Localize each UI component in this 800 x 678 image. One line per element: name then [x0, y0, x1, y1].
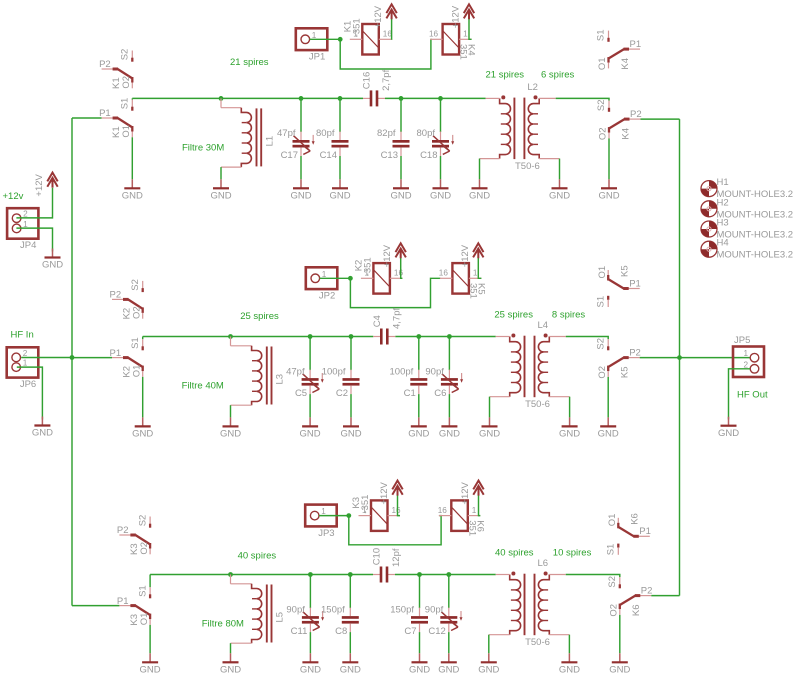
node rail/C12: [446, 572, 451, 577]
wire rail to C13: [400, 98, 402, 132]
wire C5 to ground: [309, 394, 311, 417]
ground K1 O1: [122, 179, 143, 201]
transformer L2 primary winding: [500, 95, 511, 158]
wire rail to C11: [309, 575, 311, 609]
wire K6 P2 to output bus: [651, 595, 679, 597]
wire C18 to ground: [440, 156, 442, 179]
ground C5: [300, 417, 321, 439]
junction JP3/K3: [346, 513, 351, 518]
svg-text:S2: S2: [607, 576, 618, 588]
wire L5 to ground: [230, 643, 232, 653]
svg-text:GND: GND: [42, 260, 63, 271]
svg-text:100pf: 100pf: [322, 366, 346, 377]
svg-text:12pf: 12pf: [391, 548, 402, 567]
wire K6 O2 to ground: [619, 615, 621, 653]
row 1 rail right segment: [385, 97, 486, 99]
wire JP3 to K3 coil: [319, 515, 349, 517]
svg-text:K5: K5: [620, 366, 631, 378]
wire K5 P2 to output bus: [640, 357, 680, 359]
capacitor C4 4,7pf (series): [372, 308, 403, 345]
+12V supply K1: [373, 4, 397, 28]
svg-text:90pf: 90pf: [286, 604, 305, 615]
node rail/L5: [228, 572, 233, 577]
svg-text:S1: S1: [137, 585, 148, 597]
svg-text:JP1: JP1: [309, 52, 325, 63]
ground L4 secondary: [559, 417, 580, 439]
svg-text:K6: K6: [630, 513, 641, 525]
svg-text:H3: H3: [717, 218, 729, 229]
svg-text:Filtre 30M: Filtre 30M: [182, 142, 224, 153]
svg-text:S1: S1: [595, 296, 606, 308]
node rail/L1: [219, 96, 224, 101]
svg-text:S1: S1: [596, 29, 607, 41]
svg-text:GND: GND: [390, 191, 411, 202]
wire K2 O1 to ground: [142, 377, 144, 418]
svg-text:2,7pf: 2,7pf: [381, 69, 392, 90]
svg-text:80pf: 80pf: [417, 128, 436, 139]
svg-text:C8: C8: [335, 626, 347, 637]
wire K1 S1 to rail: [131, 98, 133, 99]
inductor L5: [231, 575, 286, 644]
svg-text:+12V: +12V: [451, 5, 462, 28]
relay contact K1 contact (P1/S1/O1): [99, 98, 132, 138]
svg-text:2: 2: [23, 349, 28, 358]
wire K3 S1 to rail: [149, 575, 151, 588]
svg-text:K6: K6: [631, 604, 642, 616]
svg-text:MOUNT-HOLE3.2: MOUNT-HOLE3.2: [717, 250, 794, 261]
wire K1 O1 to ground: [131, 137, 133, 179]
svg-text:GND: GND: [409, 665, 430, 676]
svg-text:1: 1: [321, 507, 326, 516]
svg-text:P1: P1: [110, 348, 122, 359]
wire L6 secondary to K6 S2: [566, 575, 620, 578]
svg-text:L4: L4: [538, 320, 549, 331]
svg-text:JP5: JP5: [734, 335, 750, 346]
svg-text:O2: O2: [121, 76, 132, 89]
svg-text:K4: K4: [620, 58, 631, 70]
svg-text:1: 1: [312, 31, 317, 40]
svg-text:-351: -351: [360, 495, 371, 514]
wire rail to C14: [339, 98, 341, 132]
wire output bus to JP5 pin1: [680, 357, 751, 359]
row 3 rail left segment: [150, 574, 373, 576]
relay contact K3 spare contact (P2/S2/O2): [117, 515, 150, 555]
svg-text:GND: GND: [210, 191, 231, 202]
svg-text:C5: C5: [295, 388, 307, 399]
svg-text:O1: O1: [597, 266, 608, 279]
wire C1 to ground: [418, 394, 420, 417]
svg-text:C17: C17: [281, 150, 298, 161]
ground JP4: [42, 249, 63, 271]
wire K4 O2 to ground: [608, 138, 610, 179]
svg-text:T50-6: T50-6: [515, 161, 540, 172]
wire JP6 pin2 to input bus: [21, 357, 72, 359]
svg-text:O2: O2: [597, 366, 608, 379]
L6 secondary pin: [549, 574, 566, 576]
relay contact K6 spare contact (P1/S1/O1): [606, 513, 651, 555]
wire JP2 to K5 coil: [350, 278, 440, 307]
input bus vertical: [71, 118, 73, 606]
connector JP6: [7, 347, 39, 390]
mount hole H1: [701, 177, 793, 200]
svg-text:P1: P1: [629, 278, 641, 289]
svg-text:GND: GND: [469, 191, 490, 202]
L4 secondary pin: [549, 336, 566, 338]
relay coil K1 -351: [342, 18, 392, 54]
svg-text:O2: O2: [598, 127, 609, 140]
wire L4 secondary to ground: [549, 396, 569, 398]
svg-text:C16: C16: [362, 72, 373, 89]
L4 primary pin: [496, 336, 510, 338]
svg-text:C12: C12: [428, 626, 445, 637]
svg-text:GND: GND: [598, 191, 619, 202]
wire K4 P2 to output bus: [641, 118, 680, 120]
svg-text:GND: GND: [290, 191, 311, 202]
svg-text:GND: GND: [439, 429, 460, 440]
svg-text:C7: C7: [404, 626, 416, 637]
svg-text:O1: O1: [607, 514, 618, 527]
wire C11 to ground: [309, 632, 311, 653]
L2 primary pin: [486, 97, 500, 99]
wire rail to C2: [350, 337, 352, 371]
svg-text:K6: K6: [474, 520, 485, 532]
mount hole H3: [701, 218, 793, 241]
svg-text:P2: P2: [641, 585, 653, 596]
svg-text:1: 1: [472, 506, 477, 515]
capacitor C11 90pf: [286, 604, 324, 637]
wire K6 coil to +12V: [479, 495, 481, 515]
wire rail to C12: [448, 575, 450, 609]
wire K3 O1 to ground: [149, 625, 151, 653]
wire L4 primary to ground: [490, 396, 510, 398]
wire L2 secondary to ground: [539, 158, 559, 160]
svg-text:C6: C6: [434, 388, 446, 399]
svg-text:GND: GND: [559, 665, 580, 676]
relay coil K4 351: [429, 24, 477, 60]
node rail/C17: [299, 96, 304, 101]
svg-text:P2: P2: [630, 109, 642, 120]
node rail/L3: [228, 334, 233, 339]
svg-text:GND: GND: [329, 191, 350, 202]
svg-text:2: 2: [743, 360, 748, 369]
transformer L4 primary winding: [510, 334, 521, 397]
ground L2 primary: [469, 179, 490, 201]
transformer L6 secondary winding: [538, 572, 549, 635]
wire K1 coil to +12V: [390, 19, 392, 39]
svg-text:GND: GND: [220, 429, 241, 440]
svg-text:GND: GND: [300, 665, 321, 676]
svg-text:S2: S2: [596, 99, 607, 111]
ground L2 secondary: [549, 179, 570, 201]
wire K5 O2 to ground: [607, 377, 609, 418]
relay coil K3 -351: [351, 495, 401, 531]
+12V supply JP4: [34, 173, 58, 197]
connector JP1: [296, 28, 328, 62]
svg-text:P1: P1: [639, 526, 651, 537]
svg-text:25 spires: 25 spires: [240, 311, 279, 322]
ground C7: [409, 653, 430, 675]
svg-text:GND: GND: [438, 665, 459, 676]
node rail/C8: [348, 572, 353, 577]
ground K5 O2: [598, 417, 619, 439]
relay coil K5 351: [439, 263, 487, 299]
svg-text:C18: C18: [420, 150, 437, 161]
svg-text:HF Out: HF Out: [737, 390, 768, 401]
L6 primary pin: [496, 574, 510, 576]
svg-text:L2: L2: [527, 82, 538, 93]
ground K6 O2: [609, 653, 630, 675]
svg-text:S1: S1: [120, 98, 131, 110]
node rail/C18: [438, 96, 443, 101]
svg-text:GND: GND: [300, 429, 321, 440]
transformer L2 core: [513, 98, 515, 160]
wire C12 to ground: [448, 632, 450, 653]
svg-text:O1: O1: [597, 57, 608, 70]
capacitor C13 82pf: [377, 128, 410, 161]
wire C7 to ground: [419, 632, 421, 653]
connector JP4: [7, 208, 38, 251]
svg-text:JP6: JP6: [20, 379, 36, 390]
svg-text:+12V: +12V: [382, 244, 393, 267]
wire rail to C8: [349, 575, 351, 609]
wire L1 to ground: [220, 167, 222, 179]
capacitor C1 100pf: [390, 366, 428, 399]
svg-text:P1: P1: [117, 596, 129, 607]
svg-text:P1: P1: [99, 108, 111, 119]
svg-text:L5: L5: [275, 612, 286, 623]
ground C13: [390, 179, 411, 201]
junction output bus / HF Out: [677, 355, 682, 360]
svg-text:C10: C10: [372, 548, 383, 565]
row 2 rail right segment: [395, 336, 495, 338]
svg-text:K5: K5: [620, 265, 631, 277]
capacitor C5 47pf: [286, 366, 324, 399]
wire rail to C6: [448, 337, 450, 371]
wire C8 to ground: [349, 632, 351, 653]
wire JP1 to K1 coil: [310, 38, 341, 40]
svg-text:150pf: 150pf: [390, 604, 414, 615]
svg-text:6 spires: 6 spires: [541, 70, 575, 81]
svg-text:Filtre 80M: Filtre 80M: [202, 619, 244, 630]
svg-text:25 spires: 25 spires: [494, 309, 533, 320]
relay contact K2 spare contact (P2/S2/O2): [110, 279, 143, 319]
L2 secondary pin: [539, 97, 556, 99]
relay contact K6 contact (P2/S2/O2): [607, 576, 652, 617]
transformer L4 secondary winding: [538, 334, 549, 397]
wire input bus to K3 P1: [72, 605, 119, 607]
connector JP3: [305, 505, 337, 539]
svg-text:S2: S2: [130, 279, 141, 291]
capacitor C7 150pf: [390, 604, 428, 637]
wire K2 coil to +12V: [401, 258, 403, 278]
svg-text:JP2: JP2: [319, 291, 335, 302]
node rail/C1: [416, 334, 421, 339]
svg-text:HF In: HF In: [11, 330, 34, 341]
svg-text:16: 16: [392, 506, 402, 515]
relay contact K4 contact (P2/S2/O2): [596, 99, 641, 140]
svg-text:1: 1: [473, 269, 478, 278]
svg-text:T50-6: T50-6: [525, 399, 550, 410]
svg-text:GND: GND: [122, 191, 143, 202]
wire K5 coil to +12V: [478, 258, 481, 278]
svg-text:80pf: 80pf: [316, 128, 335, 139]
svg-text:H4: H4: [717, 238, 729, 249]
+12V supply K4: [451, 4, 475, 28]
+12V supply K5: [460, 243, 484, 267]
svg-text:16: 16: [439, 269, 449, 278]
svg-text:GND: GND: [430, 191, 451, 202]
ground C12: [438, 653, 459, 675]
node rail/C6: [447, 334, 452, 339]
svg-text:GND: GND: [132, 429, 153, 440]
svg-text:21 spires: 21 spires: [486, 70, 525, 81]
connector JP5: [733, 335, 764, 377]
svg-text:O2: O2: [131, 306, 142, 319]
capacitor C2 100pf: [322, 366, 360, 399]
svg-text:L3: L3: [275, 374, 286, 385]
+12V supply K3: [379, 481, 403, 505]
ground L5: [220, 653, 241, 675]
svg-text:GND: GND: [479, 429, 500, 440]
+12V supply K2: [382, 243, 406, 267]
svg-text:C11: C11: [291, 626, 308, 637]
svg-text:T50-6: T50-6: [525, 637, 550, 648]
svg-text:C1: C1: [404, 388, 416, 399]
wire rail to C1: [418, 337, 420, 371]
wire K2 S1 to rail: [142, 337, 144, 340]
svg-text:10 spires: 10 spires: [553, 547, 592, 558]
row 2 rail left segment: [143, 336, 374, 338]
svg-text:O1: O1: [131, 365, 142, 378]
svg-text:O1: O1: [121, 125, 132, 138]
wire L2 secondary to K4 S2: [556, 98, 609, 100]
wire L3 to ground: [230, 405, 232, 417]
wire C6 to ground: [448, 394, 450, 417]
transformer L2 secondary winding: [528, 95, 539, 158]
svg-text:GND: GND: [140, 665, 161, 676]
svg-text:-351: -351: [362, 257, 373, 276]
svg-text:S1: S1: [606, 544, 617, 556]
relay contact K1 spare contact (P2/S2/O2): [99, 49, 132, 89]
svg-text:GND: GND: [609, 665, 630, 676]
ground JP5: [718, 417, 739, 439]
svg-text:4,7pf: 4,7pf: [391, 308, 402, 329]
inductor L1: [221, 98, 275, 167]
wire rail to C5: [309, 337, 311, 371]
svg-text:16: 16: [429, 30, 439, 39]
svg-text:16: 16: [438, 506, 448, 515]
capacitor C12 90pf: [425, 604, 463, 637]
relay contact K4 spare contact (P1/S1/O1): [596, 29, 641, 70]
svg-text:+12v: +12v: [3, 191, 24, 202]
svg-text:+12V: +12V: [34, 173, 45, 196]
svg-text:JP3: JP3: [318, 528, 334, 539]
mount hole H2: [701, 197, 793, 220]
svg-text:C4: C4: [372, 315, 383, 327]
ground K3 O1: [140, 653, 161, 675]
capacitor C16 2,7pf (series): [362, 69, 393, 106]
svg-text:GND: GND: [408, 429, 429, 440]
wire JP5 pin2 to ground: [729, 369, 751, 420]
ground C14: [329, 179, 350, 201]
ground C8: [340, 653, 361, 675]
ground C11: [300, 653, 321, 675]
svg-text:O2: O2: [609, 604, 620, 617]
svg-text:O1: O1: [139, 613, 150, 626]
svg-text:+12V: +12V: [373, 5, 384, 28]
ground L3: [220, 417, 241, 439]
wire L6 primary to ground: [489, 634, 510, 636]
ground L6 secondary: [559, 653, 580, 675]
svg-text:GND: GND: [549, 191, 570, 202]
relay contact K3 contact (P1/S1/O1): [117, 585, 150, 625]
svg-text:S2: S2: [120, 49, 131, 61]
ground C6: [439, 417, 460, 439]
capacitor C8 150pf: [321, 604, 359, 637]
wire K3 coil to +12V: [398, 495, 401, 515]
node rail/C5: [308, 334, 313, 339]
wire rail to C7: [419, 575, 421, 609]
ground L1: [210, 179, 231, 201]
wire input bus to K2 P1: [72, 357, 112, 359]
svg-text:P2: P2: [117, 525, 129, 536]
relay coil K2 -351: [353, 257, 403, 293]
connector JP2: [306, 267, 338, 301]
relay contact K2 contact (P1/S1/O1): [110, 337, 143, 377]
svg-text:1: 1: [743, 349, 748, 358]
svg-text:21 spires: 21 spires: [230, 57, 269, 68]
ground K2 O1: [132, 417, 153, 439]
svg-text:S2: S2: [137, 515, 148, 527]
svg-text:H2: H2: [717, 197, 729, 208]
svg-text:H1: H1: [717, 177, 729, 188]
svg-text:8 spires: 8 spires: [552, 309, 586, 320]
svg-text:GND: GND: [340, 429, 361, 440]
svg-text:-351: -351: [351, 18, 362, 37]
wire JP2 to K2 coil: [320, 277, 351, 279]
svg-text:82pf: 82pf: [377, 128, 396, 139]
svg-text:100pf: 100pf: [390, 366, 414, 377]
wire rail to C18: [440, 98, 442, 132]
svg-text:JP4: JP4: [20, 240, 36, 251]
svg-text:S1: S1: [130, 337, 141, 349]
wire C13 to ground: [400, 156, 402, 179]
+12V supply K6: [460, 481, 484, 505]
svg-text:K4: K4: [466, 44, 477, 56]
svg-text:+12V: +12V: [379, 481, 390, 504]
svg-text:GND: GND: [598, 429, 619, 440]
svg-text:K4: K4: [620, 128, 631, 140]
ground C17: [290, 179, 311, 201]
ground JP6: [32, 417, 53, 439]
svg-text:47pf: 47pf: [286, 366, 305, 377]
capacitor C10 12pf (series): [372, 548, 403, 583]
ground L4 primary: [479, 417, 500, 439]
row 3 rail right segment: [395, 574, 496, 576]
svg-text:GND: GND: [220, 665, 241, 676]
ground C2: [340, 417, 361, 439]
svg-text:O2: O2: [139, 542, 150, 555]
capacitor C18 80pf: [417, 128, 455, 161]
ground C18: [430, 179, 451, 201]
svg-text:GND: GND: [32, 428, 53, 439]
node rail/C13: [399, 96, 404, 101]
svg-text:90pf: 90pf: [425, 604, 444, 615]
mount hole H4: [701, 238, 793, 261]
svg-text:47pf: 47pf: [277, 128, 296, 139]
wire C14 to ground: [339, 156, 341, 179]
capacitor C6 90pf: [425, 366, 463, 399]
